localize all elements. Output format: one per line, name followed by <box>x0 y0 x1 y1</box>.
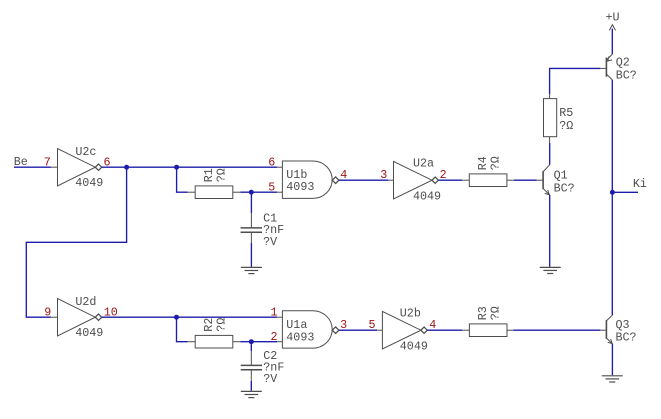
wire junction E down to C2 <box>250 342 252 351</box>
pin 3 of U1a <box>340 318 347 332</box>
node junction D <box>174 315 179 320</box>
op-amp U2c inverter 4049 <box>51 145 103 190</box>
wire U1b output to U2a input <box>339 179 388 181</box>
wire junction D down to R2 row <box>177 317 188 342</box>
svg-text:Q2: Q2 <box>616 55 630 69</box>
wire U2a output to R4 <box>438 179 462 181</box>
ground below Q3 <box>602 376 623 382</box>
ground below C2 <box>241 391 262 397</box>
svg-text:Q3: Q3 <box>616 318 630 332</box>
pin 10 of U2d <box>104 306 118 320</box>
pin 2 of U2a <box>440 168 447 182</box>
svg-text:1: 1 <box>271 306 278 320</box>
resistor R1 <box>188 168 241 198</box>
svg-text:BC?: BC? <box>554 181 575 195</box>
wire R2 to U1a pin 2 <box>240 341 277 343</box>
transistor Q1 BC? NPN <box>537 165 575 196</box>
svg-text:3: 3 <box>380 168 387 182</box>
resistor R5 <box>544 94 574 143</box>
ground below C1 <box>241 267 262 273</box>
resistor R2 <box>188 318 241 348</box>
svg-text:?Ω: ?Ω <box>215 318 229 332</box>
wire junction B down to R1 row <box>177 167 188 192</box>
node junction A <box>124 165 129 170</box>
pin 1 of U1a <box>271 306 278 320</box>
op-amp U1a NAND 4093 <box>277 311 339 348</box>
svg-text:?Ω: ?Ω <box>489 156 503 170</box>
svg-text:4093: 4093 <box>286 180 314 194</box>
node junction B <box>174 165 179 170</box>
svg-text:?Ω: ?Ω <box>215 168 229 182</box>
svg-text:BC?: BC? <box>616 331 637 345</box>
capacitor C2 <box>241 349 285 386</box>
pin 4 of U1b <box>340 168 347 182</box>
op-amp U1b NAND 4093 <box>277 161 339 198</box>
svg-text:4049: 4049 <box>413 189 441 203</box>
pin 4 of U2b <box>429 318 436 332</box>
svg-text:5: 5 <box>369 318 376 332</box>
pin 2 of U1a <box>271 330 278 344</box>
svg-text:6: 6 <box>268 156 275 170</box>
svg-text:Ki: Ki <box>633 177 647 191</box>
pin 9 of U2d <box>44 306 51 320</box>
wire U1a output to U2b input <box>339 329 377 331</box>
svg-text:?V: ?V <box>263 235 277 249</box>
pin 7 of U2c <box>44 156 51 170</box>
svg-text:7: 7 <box>44 156 51 170</box>
svg-text:R5: R5 <box>559 106 573 120</box>
wire U2c output to U1b pin 6 <box>102 166 278 168</box>
svg-text:U2c: U2c <box>75 145 96 159</box>
wire R1 to U1b pin 5 <box>240 191 277 193</box>
node Ki output <box>610 177 647 195</box>
op-amp U2a inverter 4049 <box>388 157 441 204</box>
wire C2 to ground <box>250 381 252 391</box>
svg-text:?V: ?V <box>263 372 277 386</box>
wire U2b output to R3 <box>427 329 462 331</box>
wire Q1 collector to R5 <box>549 143 551 165</box>
wire U2d output to U1a pin 1 <box>102 316 278 318</box>
svg-text:4049: 4049 <box>75 176 103 190</box>
op-amp U2d inverter 4049 <box>51 295 103 340</box>
svg-text:4049: 4049 <box>75 326 103 340</box>
svg-text:+U: +U <box>606 10 620 24</box>
wire R4 to Q1 base <box>514 179 537 181</box>
wire C1 to ground <box>250 243 252 267</box>
power +U supply arrow <box>606 10 620 30</box>
transistor Q3 BC? NPN <box>600 315 636 345</box>
ground below Q1 <box>540 267 561 273</box>
svg-text:BC?: BC? <box>616 68 637 82</box>
wire R5 top to Q2 base <box>550 68 601 94</box>
svg-text:U2b: U2b <box>400 307 421 321</box>
pin 6 of U2c <box>104 156 111 170</box>
pin 3 of U2a <box>380 168 387 182</box>
wire junction A down-left to U2d input <box>26 167 126 317</box>
svg-text:5: 5 <box>268 181 275 195</box>
svg-text:U2d: U2d <box>75 295 96 309</box>
node junction C <box>249 190 254 195</box>
wire R3 to Q3 base <box>513 329 600 331</box>
wire junction C down to C1 <box>250 192 252 213</box>
node Be input label <box>14 155 28 169</box>
wire Q3 emitter to ground <box>611 344 613 375</box>
node junction E <box>249 339 254 344</box>
svg-text:4093: 4093 <box>286 331 314 345</box>
resistor R3 <box>462 306 513 336</box>
svg-text:4049: 4049 <box>400 340 428 354</box>
op-amp U2b inverter 4049 <box>377 307 428 354</box>
svg-text:2: 2 <box>271 330 278 344</box>
resistor R4 <box>462 156 514 186</box>
pin 5 of U1b <box>268 181 275 195</box>
transistor Q2 BC? PNP <box>600 54 636 82</box>
capacitor C1 <box>241 212 285 249</box>
wire Be input <box>14 166 51 168</box>
svg-text:U2a: U2a <box>413 157 434 171</box>
pin 5 of U2b <box>369 318 376 332</box>
svg-text:?Ω: ?Ω <box>489 306 503 320</box>
wire Q2 emitter to +U <box>611 29 613 55</box>
svg-text:9: 9 <box>44 306 51 320</box>
wire Q2 collector rail down to Q3 collector <box>611 80 613 315</box>
wire Q1 emitter to ground <box>549 195 551 267</box>
svg-text:?Ω: ?Ω <box>559 119 573 133</box>
pin 6 of U1b <box>268 156 275 170</box>
svg-text:Q1: Q1 <box>554 168 568 182</box>
